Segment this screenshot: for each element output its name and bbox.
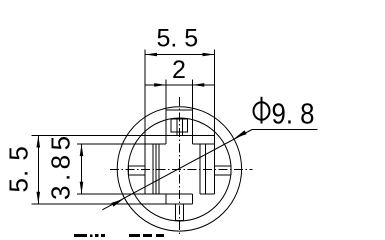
svg-text:2: 2 [172,56,186,84]
svg-text:5. 5: 5. 5 [4,145,34,192]
svg-text:5. 5: 5. 5 [157,25,199,53]
svg-text:3.85: 3.85 [46,131,76,200]
svg-text:9. 8: 9. 8 [272,99,315,131]
